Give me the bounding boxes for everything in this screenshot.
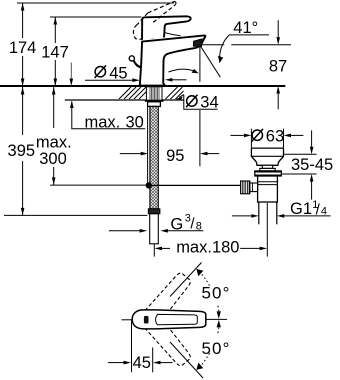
extension line top (174) [17,2,174,4]
dashed lever rotated up 50° [145,271,193,323]
deck hatch right [166,87,184,99]
pop-up rod horizontal [149,184,241,186]
svg-text:95: 95 [166,147,184,165]
dimension 35-45 [284,153,317,155]
clamp screw knob [250,183,258,192]
svg-text:G1: G1 [290,200,312,218]
tailpipe centerline [266,203,268,257]
valve body [258,176,278,202]
svg-text:174: 174 [9,39,37,57]
svg-text:45: 45 [109,64,127,82]
extension line max300 bottom [50,184,146,186]
horizontal reference right [206,318,227,320]
svg-text:30: 30 [126,113,144,131]
Ø45 label [95,65,106,78]
95 extension line right [199,110,201,166]
vertical reference line [199,46,201,82]
deck top line [0,85,285,87]
svg-text:395: 395 [8,142,36,160]
dotted arc upper [201,273,209,285]
centerline spout level [200,44,224,46]
lever inner line [156,314,198,324]
dimension 95 [120,153,141,155]
G 3/8 label [109,230,140,232]
mounting nut [148,102,161,107]
dashed lever rotated down 50° [145,316,193,368]
dotted arc lower [201,353,209,365]
ball joint [146,182,152,188]
svg-text:41°: 41° [233,19,258,37]
dimension 87 [277,20,279,38]
svg-text:35-45: 35-45 [291,156,333,174]
extension line 147 [50,16,142,18]
short line left of knob [122,319,133,321]
svg-text:300: 300 [39,150,67,168]
tailpipe [258,202,260,224]
dimension max.180 [153,244,155,256]
arc arrows at mid [218,306,219,312]
svg-text:63: 63 [266,128,284,146]
cartridge dome under lever [147,27,162,37]
washer under deck [145,100,164,102]
pull rod knob [129,56,134,61]
svg-text:G: G [170,216,183,234]
svg-text:8: 8 [196,221,202,233]
G1 1/4 label [232,215,251,217]
41° curved leader [220,35,230,57]
lower 50° diagonal [170,342,203,378]
svg-text:50°: 50° [202,339,231,358]
svg-text:max.180: max.180 [176,239,239,257]
Ø34 label [186,95,197,108]
svg-text:147: 147 [41,44,69,62]
spout end face [200,36,205,45]
dimension max.300 [53,87,55,185]
extension line 395 bottom [4,214,147,216]
hose end tube [150,214,159,244]
spout axis diagonal [200,46,220,78]
deck bottom line [65,99,184,101]
valve flange [255,171,281,176]
svg-text:4: 4 [321,206,327,218]
dimension 174 [22,3,24,86]
max.30 label and lower arrow [72,102,145,129]
max.30 upper arrow [70,63,72,80]
svg-text:45: 45 [133,354,151,372]
upper 50° diagonal [170,263,202,297]
dimension 395 [22,87,24,215]
hose fitting [148,209,160,214]
valve plug [251,148,283,165]
svg-text:max.: max. [36,134,72,152]
threaded shank [146,87,162,100]
dimension 147 [54,17,56,86]
lever slot [144,316,149,324]
Ø63 dimension [250,129,252,148]
arc end arrow lower [196,363,203,370]
svg-text:50°: 50° [202,284,231,303]
valve stem [262,165,272,168]
faucet body [140,35,206,85]
dashed raised lever [133,2,176,40]
lever handle [142,16,191,40]
svg-text:87: 87 [269,58,287,76]
deck hatch left [119,87,148,99]
pull rod vertical [147,107,149,186]
svg-text:max.: max. [85,113,121,131]
aerator [193,39,202,47]
arc end arrow upper [196,269,203,276]
supply hose braided [150,107,158,209]
lever top view solid [132,310,206,329]
dimension 45 [131,321,133,373]
flow angle arc [169,69,194,72]
